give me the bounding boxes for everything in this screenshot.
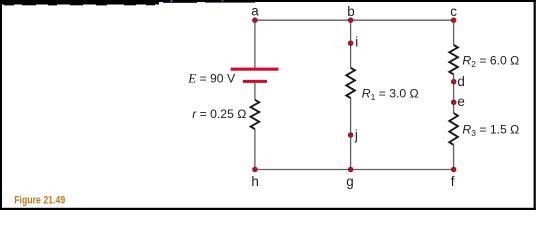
resistor R2 zigzag [449,45,458,74]
wire a to battery [254,20,256,67]
battery EMF plate short [243,80,267,83]
resistor R1 zigzag [346,68,355,98]
svg-text:R1 = 3.0 Ω: R1 = 3.0 Ω [362,86,419,102]
svg-text:c: c [450,4,457,19]
svg-text:R3 = 1.5 Ω: R3 = 1.5 Ω [462,122,519,138]
svg-text:i: i [355,34,358,49]
node d [451,79,457,85]
page frame: top border [0,0,536,2]
svg-text:g: g [346,174,353,189]
battery EMF plate long [231,68,279,71]
node a [252,17,258,23]
svg-text:f: f [451,174,455,189]
svg-text:j: j [354,128,358,143]
node e [451,100,457,106]
svg-text:r = 0.25 Ω: r = 0.25 Ω [192,107,246,121]
node b [348,17,354,23]
cropped text bar top-left [0,0,159,5]
page frame: right border [534,0,536,209]
wire c to R2 [453,20,455,45]
page frame: left border [0,0,2,209]
node j [348,132,354,138]
wire bottom (h-g-f) [255,169,454,171]
wire top (a-b-c) [255,19,454,21]
wire r to h [254,129,256,170]
node h [252,167,258,173]
svg-text:E = 90 V: E = 90 V [187,71,236,86]
svg-text:e: e [457,94,464,109]
resistor r zigzag [251,100,260,129]
wire battery to r [254,83,256,100]
node f [451,167,457,173]
svg-text:h: h [251,174,258,189]
node c [451,17,457,23]
svg-text:b: b [347,4,354,19]
svg-text:a: a [251,4,259,19]
page frame: bottom border [0,208,536,210]
wire R1 to g [350,98,352,170]
wire R2 to R3 (through d,e) [453,74,455,113]
node g [348,167,354,173]
svg-text:R2 = 6.0 Ω: R2 = 6.0 Ω [462,53,519,69]
wire b to R1 [350,20,352,68]
resistor R3 zigzag [449,113,458,145]
svg-text:d: d [457,74,464,89]
node i [348,40,354,46]
blue speck on cropped text [171,0,173,2]
svg-text:Figure 21.49: Figure 21.49 [14,194,65,206]
wire R3 to f [453,145,455,170]
